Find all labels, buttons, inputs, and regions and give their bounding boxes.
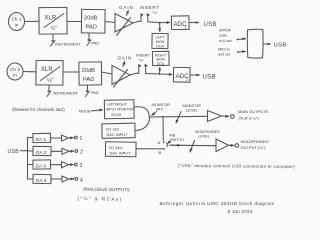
- svg-text:and out: and out: [218, 53, 230, 57]
- main output amp: [208, 111, 222, 122]
- svg-text:SWITCH: SWITCH: [170, 138, 185, 142]
- wire USB to DAC bus: [21, 150, 28, 152]
- svg-text:¼": ¼": [51, 26, 57, 32]
- svg-text:20dB: 20dB: [84, 16, 98, 22]
- label HEADPHONES OUTPUT: [241, 139, 269, 150]
- wire DA3 to buffer: [51, 164, 62, 166]
- wire DA1 to buffer: [51, 137, 62, 139]
- wire box C to B contact: [136, 148, 163, 150]
- ADC1: [171, 16, 189, 30]
- label ANALOGUE OUTPUTS: [77, 187, 129, 202]
- svg-text:Behringer Uphoria UMC 404HD: Behringer Uphoria UMC 404HD block diagra…: [160, 201, 275, 206]
- wire amp to headphone jack: [229, 144, 234, 146]
- wire buffer1 to jack1: [69, 137, 74, 139]
- svg-text:MIX: MIX: [156, 107, 163, 112]
- stub to DA1: [28, 137, 34, 139]
- label MIDI: [218, 48, 230, 57]
- USB hub box: [247, 29, 263, 58]
- ch3and4 DAC input box: [105, 142, 136, 157]
- junction node CH2: [159, 73, 161, 75]
- pad switch CH2: [86, 85, 90, 97]
- DAC bus: [27, 138, 29, 180]
- svg-text:"¼": "¼": [152, 10, 159, 15]
- label MONITOR LEVEL: [183, 103, 201, 113]
- switch wiper: [167, 143, 168, 147]
- DA1 box: [33, 133, 51, 143]
- stub to DA2: [28, 150, 34, 152]
- svg-text:CH 1&2: CH 1&2: [106, 126, 120, 131]
- headphone jack: [235, 144, 239, 148]
- output jack 2: [75, 150, 78, 153]
- svg-text:PAD: PAD: [86, 25, 98, 31]
- A contact: [163, 141, 165, 143]
- output buffer 2: [62, 148, 69, 154]
- svg-text:"¼": "¼": [138, 59, 145, 63]
- svg-text:XLR: XLR: [45, 16, 57, 22]
- svg-text:ANALOGUE OUTPUTS: ANALOGUE OUTPUTS: [83, 187, 130, 193]
- wire hub to USB: [263, 43, 271, 45]
- svg-text:XLR: XLR: [41, 67, 53, 73]
- label MAIN OUTPUTS: [238, 109, 269, 121]
- insert contacts CH2: [138, 64, 148, 68]
- input jack CH1: [9, 13, 25, 31]
- svg-text:HEADPHONES: HEADPHONES: [241, 139, 269, 144]
- svg-text:LEVEL: LEVEL: [199, 135, 210, 139]
- junction node CH1: [159, 22, 161, 24]
- output jack 3: [74, 163, 77, 166]
- ch1and2 DAC input box: [102, 123, 135, 138]
- DA4 box: [33, 174, 51, 184]
- output jack 1: [74, 136, 77, 139]
- svg-text:DA 2: DA 2: [36, 150, 47, 156]
- B contact: [163, 148, 165, 150]
- label INSERT CH2: [136, 54, 151, 63]
- svg-text:Ch 2: Ch 2: [10, 67, 20, 72]
- wire insert to ADC2: [146, 68, 172, 75]
- svg-text:A: A: [158, 140, 161, 145]
- DA2 box: [33, 146, 51, 156]
- wire box B to mix node: [135, 118, 150, 131]
- svg-text:¼": ¼": [47, 78, 53, 84]
- label MONITOR MIX: [152, 102, 170, 115]
- svg-text:Ch 1: Ch 1: [12, 17, 22, 22]
- mode arrow: [91, 110, 103, 111]
- svg-text:(XLR & ¼"): (XLR & ¼"): [239, 116, 260, 121]
- svg-text:LEVEL: LEVEL: [186, 108, 199, 113]
- svg-text:1: 1: [185, 26, 187, 30]
- input jack CH2: [7, 63, 23, 80]
- svg-text:DA 4: DA 4: [36, 178, 47, 184]
- wire to insert CH2: [130, 68, 139, 76]
- svg-text:GAIN: GAIN: [119, 5, 134, 10]
- gain amp CH1: [115, 14, 133, 33]
- ADC2: [173, 67, 190, 82]
- svg-text:INPUT MONITOR: INPUT MONITOR: [106, 108, 134, 112]
- pad CH2 (20dB PAD): [79, 62, 102, 85]
- svg-text:DCA: DCA: [157, 62, 165, 66]
- pad switch CH1: [87, 33, 91, 46]
- main output jack: [231, 115, 235, 119]
- stub to DA4: [28, 178, 34, 180]
- wire to insert CH1: [133, 17, 141, 24]
- wire spdif to hub: [238, 38, 245, 41]
- svg-text:HEADPHONES: HEADPHONES: [195, 130, 221, 134]
- wire buffer3 to jack3: [69, 164, 74, 166]
- svg-text:LEFT: LEFT: [155, 35, 165, 39]
- svg-text:USB: USB: [8, 149, 20, 155]
- svg-text:in: in: [15, 22, 19, 27]
- svg-text:INSERT: INSERT: [140, 5, 160, 10]
- stub to DA3: [28, 164, 34, 166]
- svg-text:PAD: PAD: [91, 90, 99, 95]
- output jack 4: [75, 177, 78, 180]
- svg-text:LEFT/RIGHT: LEFT/RIGHT: [107, 102, 128, 106]
- svg-text:DCA: DCA: [156, 45, 164, 49]
- svg-text:DAC INPUT: DAC INPUT: [107, 132, 129, 137]
- insert contacts CH1: [140, 13, 150, 17]
- svg-text:B: B: [159, 150, 162, 155]
- svg-text:INSTRUMENT: INSTRUMENT: [53, 91, 79, 96]
- wire ADC1 to USB: [189, 22, 199, 24]
- wire box A to mix node: [134, 107, 149, 116]
- instrument switch CH1: [51, 34, 56, 46]
- svg-text:OUTPUT (¼"): OUTPUT (¼"): [241, 145, 267, 150]
- monitor mix node: [149, 116, 151, 118]
- svg-text:USB: USB: [274, 43, 287, 49]
- wire: [25, 20, 40, 22]
- svg-text:DA 1: DA 1: [36, 137, 47, 143]
- svg-text:8 Jan 2024: 8 Jan 2024: [228, 209, 253, 214]
- headphone amp: [216, 139, 229, 152]
- output buffer 4: [62, 176, 69, 182]
- wire buffer4 to jack4: [69, 178, 74, 180]
- svg-text:2: 2: [186, 78, 188, 82]
- label A/B SWITCH: [168, 133, 185, 143]
- wire ADC2 to USB: [190, 74, 200, 76]
- svg-text:3: 3: [80, 163, 83, 169]
- svg-text:PAD: PAD: [92, 41, 100, 46]
- left monitor DCA box: [152, 33, 168, 48]
- svg-text:USB: USB: [203, 75, 216, 81]
- gain pot arrow CH2: [114, 62, 128, 88]
- spdif node dot: [237, 39, 239, 41]
- wire insert to ADC1: [148, 17, 170, 23]
- wire: [105, 22, 115, 23]
- svg-text:DA 3: DA 3: [36, 164, 47, 170]
- svg-text:("USB" denotes common USB conn: ("USB" denotes common USB connection to …: [178, 163, 295, 169]
- wire: [102, 72, 113, 74]
- DA3 box: [33, 160, 51, 170]
- output buffer 1: [62, 135, 69, 141]
- wire: [63, 71, 79, 73]
- gain pot arrow CH1: [117, 11, 131, 36]
- svg-text:MON: MON: [156, 40, 165, 44]
- label SPDIF coax: [219, 29, 232, 43]
- svg-text:INSERT: INSERT: [136, 54, 151, 58]
- svg-text:MODE: MODE: [79, 109, 91, 113]
- svg-text:20dB: 20dB: [82, 68, 96, 74]
- svg-text:coax: coax: [219, 34, 227, 38]
- svg-text:MAIN OUTPUTS: MAIN OUTPUTS: [238, 109, 269, 114]
- svg-text:PAD: PAD: [83, 77, 95, 83]
- headphone bus wire: [170, 144, 217, 147]
- output buffer 3: [62, 162, 69, 168]
- wire: [23, 71, 36, 73]
- label HEADPHONES LEVEL: [195, 130, 221, 139]
- wire junction to right mon DCA: [159, 68, 161, 74]
- svg-text:(likewise for channels 3&4): (likewise for channels 3&4): [12, 107, 65, 112]
- headphone level pot: [190, 141, 195, 153]
- svg-text:GAIN: GAIN: [118, 56, 133, 61]
- svg-text:MIDI in: MIDI in: [218, 48, 230, 52]
- svg-text:INSTRUMENT: INSTRUMENT: [55, 42, 81, 47]
- instrument switch CH2: [47, 85, 51, 97]
- combo jack CH2 (XLR/quarter-inch): [36, 60, 63, 85]
- gain amp CH2: [112, 66, 130, 85]
- wire: [67, 21, 81, 23]
- wire amp to main jack: [222, 115, 229, 117]
- pad CH1 (20dB PAD): [81, 9, 105, 33]
- svg-text:A/B: A/B: [170, 133, 176, 137]
- right monitor DCA box: [152, 51, 169, 66]
- wire DA4 to buffer: [51, 178, 62, 180]
- monitor bus wire: [150, 115, 207, 118]
- wiper out dot: [172, 144, 174, 146]
- wire junction to left mon DCA: [159, 24, 161, 32]
- monitor level pot: [176, 112, 181, 124]
- svg-text:CH 3&4: CH 3&4: [109, 145, 123, 150]
- svg-text:2: 2: [80, 150, 83, 156]
- wire bus to A contact: [162, 117, 164, 141]
- wire buffer2 to jack2: [69, 150, 74, 152]
- svg-text:1: 1: [80, 136, 83, 142]
- svg-text:DAC INPUT: DAC INPUT: [110, 150, 132, 155]
- svg-text:S/PDIF: S/PDIF: [219, 29, 232, 33]
- svg-text:USB: USB: [204, 22, 217, 28]
- wire midi to hub: [239, 50, 246, 53]
- wire DA2 to buffer: [51, 150, 62, 152]
- svg-text:in & out: in & out: [219, 39, 232, 43]
- svg-text:4: 4: [80, 177, 83, 183]
- svg-text:("¼" & RCAs): ("¼" & RCAs): [77, 196, 122, 202]
- arrow into wiper: [176, 144, 181, 146]
- junction on bus: [162, 116, 164, 118]
- svg-text:DCAS: DCAS: [112, 113, 122, 117]
- combo jack CH1 (XLR/quarter-inch): [39, 7, 67, 34]
- svg-text:in: in: [13, 72, 17, 77]
- label INSERT CH1: [140, 5, 160, 15]
- left right input monitor DCAs box: [104, 100, 134, 119]
- midi node dot: [237, 51, 239, 53]
